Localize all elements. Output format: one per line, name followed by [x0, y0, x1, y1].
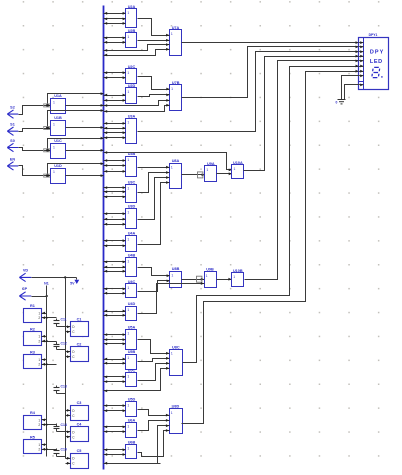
svg-text:CP: CP — [22, 287, 28, 291]
wire: rail to C1 pins — [66, 325, 71, 333]
svg-text:U4B: U4B — [128, 254, 136, 258]
svg-text:U2D: U2D — [128, 84, 136, 88]
svg-text:2: 2 — [38, 339, 40, 343]
AND gate U5A — [126, 326, 137, 350]
inverter U1B — [51, 116, 66, 136]
svg-text:1: 1 — [127, 186, 129, 190]
OR gate U8C — [170, 345, 183, 375]
svg-text:1: 1 — [234, 167, 236, 171]
port S1 (input connector arrow) — [7, 123, 18, 136]
svg-text:1: 1 — [38, 443, 40, 447]
wire: bus taps to U3A inputs — [104, 122, 126, 139]
wire: U10B out to display pin 5 — [245, 60, 359, 280]
svg-text:U3C: U3C — [128, 180, 136, 184]
wire: bus taps to U4C inputs — [104, 288, 126, 295]
svg-text:S2: S2 — [10, 106, 15, 110]
svg-text:U5D: U5D — [128, 397, 136, 401]
wire: U2B out to U7A in2 — [138, 39, 170, 42]
buffer U9B — [205, 268, 217, 288]
svg-text:1: 1 — [127, 35, 129, 39]
wire: U5A out to U8C in1 — [138, 340, 170, 355]
OR gate U8D — [170, 405, 183, 434]
buffer U9A — [205, 162, 217, 182]
svg-text:1: 1 — [127, 424, 129, 428]
wire: U3D out to U8A in3 — [138, 176, 170, 219]
svg-text:C15: C15 — [61, 448, 67, 452]
svg-text:U1C: U1C — [54, 139, 62, 143]
svg-text:1: 1 — [127, 375, 129, 379]
wire: VD to 5V rail — [32, 276, 77, 278]
wire: bus taps to U2A inputs — [104, 12, 126, 25]
inverter U1D — [51, 164, 66, 184]
wire: rail to C2 pins — [66, 350, 71, 358]
svg-text:1: 1 — [127, 260, 129, 264]
svg-text:U1D: U1D — [54, 164, 62, 168]
wire: U4A out to U8A in4 — [138, 181, 170, 244]
wire: inverter U1A output to bus — [66, 104, 104, 107]
svg-text:U4D: U4D — [128, 302, 136, 306]
wire: bus taps to U4B inputs — [104, 261, 126, 273]
svg-text:1: 1 — [127, 356, 129, 360]
port CLK input connector — [19, 287, 31, 300]
svg-text:0: 0 — [336, 101, 338, 105]
wire: U10A out to display pin 4 — [244, 55, 359, 171]
wire: U4C out to U8B in2 — [138, 280, 170, 292]
svg-text:DPY1: DPY1 — [369, 33, 378, 37]
wire: U4B out to U8B in1 — [138, 268, 170, 278]
svg-text:1: 1 — [171, 165, 173, 169]
svg-text:1: 1 — [127, 211, 129, 215]
svg-text:U10A: U10A — [233, 161, 243, 165]
wire: U3B out to U8A in1 — [138, 166, 170, 169]
AND gate U6A — [126, 418, 137, 437]
svg-text:N1: N1 — [44, 281, 49, 285]
wire: U3C out to U8A in2 — [138, 171, 170, 192]
svg-text:U5A: U5A — [128, 326, 136, 330]
wire: bus to U7A in3 — [104, 43, 170, 52]
wire: bus taps to U5A inputs — [104, 333, 126, 345]
svg-text:1: 1 — [53, 100, 55, 104]
svg-text:U9B: U9B — [206, 268, 214, 272]
svg-text:5V: 5V — [70, 282, 75, 286]
wire: bus taps to U5D inputs — [104, 404, 126, 412]
svg-text:R3: R3 — [30, 351, 35, 355]
svg-text:C1: C1 — [77, 318, 82, 322]
wire: R2 pins to rail — [42, 335, 57, 343]
svg-text:C14: C14 — [61, 423, 67, 427]
driver block C3 — [71, 401, 89, 420]
wire: port S1 to inverter U1B input and bus tap — [19, 109, 104, 131]
wire: U9B out to U10B in — [217, 278, 232, 281]
svg-text:DPY: DPY — [370, 50, 384, 56]
svg-text:U8C: U8C — [172, 345, 180, 349]
AND gate U3A — [126, 114, 137, 143]
capacitor C13 — [54, 385, 67, 394]
wire: bus taps to U2B inputs — [104, 37, 126, 44]
capacitor C14 — [54, 423, 67, 432]
svg-text:1: 1 — [206, 274, 208, 278]
AND gate U5C — [126, 369, 137, 387]
wire: bus to U10A in1 — [104, 151, 232, 171]
svg-text:1: 1 — [127, 403, 129, 407]
AND gate U5B — [126, 350, 137, 370]
wire: U7B out to display pin 2 — [182, 46, 359, 98]
port EN (input connector arrow) — [7, 157, 18, 170]
wire: bus taps to U2D inputs — [104, 94, 126, 102]
svg-text:1: 1 — [127, 308, 129, 312]
wire: bus bottom feed to U8D in3 — [104, 424, 170, 464]
svg-text:1: 1 — [127, 71, 129, 75]
wire: U8A out to U9A pad — [182, 172, 205, 178]
wire: U8D out to display pin 7 — [182, 70, 359, 424]
wire: R4 pins to rail — [42, 419, 57, 427]
svg-text:U10B: U10B — [233, 269, 243, 273]
svg-text:1: 1 — [38, 418, 40, 422]
key switch R5 — [24, 436, 42, 454]
AND gate U6B — [126, 441, 137, 459]
svg-text:U2C: U2C — [128, 65, 136, 69]
svg-text:VD: VD — [23, 269, 29, 273]
wire: bus taps to U3B inputs — [104, 159, 126, 173]
driver block C5 — [71, 449, 89, 468]
AND gate U5D — [126, 397, 137, 416]
wire: U2C out to U7B in1 — [138, 77, 170, 91]
svg-text:1: 1 — [127, 90, 129, 94]
key switch R4 — [24, 411, 42, 430]
svg-text:1: 1 — [53, 170, 55, 174]
svg-text:1: 1 — [171, 32, 173, 36]
wire: R1 pins to rail — [42, 312, 57, 320]
svg-text:2: 2 — [38, 423, 40, 427]
driver block C4 — [71, 423, 89, 442]
key switch R2 — [24, 327, 42, 345]
key switch R3 — [24, 351, 42, 369]
port VD (power input connector) — [19, 269, 31, 282]
power symbol 5V — [70, 278, 79, 286]
svg-text:C3: C3 — [77, 401, 82, 405]
wire: U4D out to U9B in2 — [138, 282, 205, 313]
svg-text:U4C: U4C — [128, 280, 136, 284]
svg-text:1: 1 — [127, 120, 129, 124]
svg-text:U1A: U1A — [54, 94, 62, 98]
seven-segment display DPY1 (DPY LED) — [359, 33, 389, 89]
svg-text:1: 1 — [127, 238, 129, 242]
svg-text:U3D: U3D — [128, 205, 136, 209]
wire: left vertical rail — [44, 281, 49, 456]
svg-text:U1B: U1B — [54, 116, 62, 120]
svg-text:R1: R1 — [30, 304, 35, 308]
wire: U8B out to U9B pad — [182, 276, 205, 282]
svg-text:1: 1 — [38, 311, 40, 315]
svg-text:1: 1 — [171, 87, 173, 91]
svg-text:1: 1 — [206, 168, 208, 172]
AND gate U10B — [232, 269, 244, 287]
wire: U5D out to U8D in1 — [138, 410, 170, 417]
AND gate U4C — [126, 280, 137, 298]
wire: rail to C5 pins — [66, 457, 71, 465]
port S2 (input connector arrow) — [7, 106, 18, 119]
svg-text:U2A: U2A — [128, 5, 136, 9]
OR gate U7B — [170, 81, 182, 111]
svg-text:S0: S0 — [10, 139, 15, 143]
svg-text:1: 1 — [38, 358, 40, 362]
wire: U8C out to display pin 6 — [183, 65, 359, 363]
wire: bus to U7B in3 — [104, 99, 170, 107]
wire: right vertical rail — [65, 278, 67, 459]
wire: inverter U1D output to bus — [66, 174, 104, 177]
AND gate U3B — [126, 152, 137, 176]
svg-text:1: 1 — [127, 158, 129, 162]
capacitor C11 — [54, 318, 67, 327]
wire: U7A out to display pin 1 — [182, 41, 359, 44]
wire: port S2 to inverter U1A input and bus tap — [19, 92, 104, 114]
wire: port S0 to inverter U1C input and bus tap — [19, 137, 104, 152]
svg-text:R5: R5 — [30, 436, 35, 440]
wire: inverter U1C output to bus — [66, 149, 104, 152]
svg-text:1: 1 — [233, 275, 235, 279]
capacitor C12 — [54, 341, 67, 349]
key switch R1 — [24, 304, 42, 322]
wire: port EN to inverter U1D input and bus tap — [19, 162, 104, 177]
driver block C2 — [71, 343, 89, 362]
svg-text:1: 1 — [53, 122, 55, 126]
wire: bus taps to U3C inputs — [104, 186, 126, 198]
wire: vertical signal bus — [103, 6, 105, 470]
svg-text:2: 2 — [38, 316, 40, 320]
wire: R5 pins to rail — [42, 443, 57, 450]
wire: rail to C4 pins — [66, 431, 71, 439]
wire: R3 pins to rail — [42, 358, 57, 365]
svg-text:C2: C2 — [77, 343, 82, 347]
svg-text:U9A: U9A — [207, 162, 215, 166]
wire: U6B out to U8D in4 — [138, 429, 170, 456]
wire: bus taps to U5B inputs — [104, 358, 126, 365]
svg-text:S1: S1 — [10, 123, 15, 127]
wire: U2A out to U7A in1 — [138, 19, 170, 37]
wire: bus taps to U6B inputs — [104, 448, 126, 456]
wire: bus taps to U6A inputs — [104, 426, 126, 434]
display DPY1 pin stubs — [359, 41, 364, 86]
svg-text:U8B: U8B — [172, 267, 180, 271]
wire: bus taps to U3D inputs — [104, 212, 126, 225]
wire: U5C out to U8C in3 — [138, 362, 170, 381]
wire: U2D out to U7B in2 — [138, 94, 170, 97]
wire: bus taps to U4D inputs — [104, 310, 126, 317]
AND gate U3D — [126, 205, 137, 229]
svg-text:U5C: U5C — [128, 369, 136, 373]
svg-text:1: 1 — [53, 146, 55, 150]
AND gate U2A — [126, 5, 137, 28]
AND gate U4D — [126, 302, 137, 321]
svg-text:C12: C12 — [61, 341, 67, 345]
OR gate U8A — [170, 159, 182, 188]
AND gate U2D — [126, 84, 137, 104]
svg-text:U6A: U6A — [128, 418, 136, 422]
svg-text:U3A: U3A — [128, 114, 136, 118]
wire: CLK port to left rail — [32, 295, 48, 297]
svg-text:U7B: U7B — [172, 81, 180, 85]
wire: U9A out to U10A in2 — [217, 172, 232, 175]
wire: bus to U7A in4 — [104, 48, 170, 57]
wire: bus taps to U4A inputs — [104, 239, 126, 247]
svg-text:C11: C11 — [61, 318, 67, 322]
port S0 (input connector arrow) — [7, 139, 18, 152]
svg-text:C5: C5 — [77, 449, 82, 453]
svg-text:U7A: U7A — [172, 26, 180, 30]
svg-text:2: 2 — [38, 448, 40, 452]
AND gate U10A — [232, 161, 244, 179]
svg-text:1: 1 — [127, 286, 129, 290]
OR gate U7A — [170, 26, 182, 56]
inverter U1A — [51, 94, 66, 114]
svg-text:1: 1 — [127, 447, 129, 451]
AND gate U4A — [126, 232, 137, 252]
wire: U5B out to U8C in2 — [138, 357, 170, 362]
driver block C1 — [71, 318, 89, 337]
svg-text:1: 1 — [171, 273, 173, 277]
svg-text:LED: LED — [370, 59, 382, 65]
svg-text:EN: EN — [10, 157, 16, 161]
svg-text:1: 1 — [127, 332, 129, 336]
wire: U3A out to display pin 3 — [138, 50, 359, 131]
wire: U6A out to U8D in2 — [138, 419, 170, 431]
svg-text:2: 2 — [38, 363, 40, 367]
svg-text:1: 1 — [127, 11, 129, 15]
wire: display common pins to ground — [342, 76, 359, 100]
svg-text:U8D: U8D — [172, 405, 180, 409]
svg-text:U4A: U4A — [128, 232, 136, 236]
svg-text:C13: C13 — [61, 385, 67, 389]
wire: inverter U1B output to bus — [66, 126, 104, 129]
capacitor C15 — [54, 448, 67, 457]
AND gate U4B — [126, 254, 137, 277]
wire: rail to C3 pins — [66, 409, 71, 417]
AND gate U2B — [126, 29, 137, 48]
wire: bus to U7B in4 — [104, 104, 170, 113]
svg-text:1: 1 — [171, 352, 173, 356]
svg-text:1: 1 — [171, 411, 173, 415]
OR gate U8B — [170, 267, 182, 287]
svg-text:1: 1 — [38, 335, 40, 339]
inverter U1C — [51, 139, 66, 158]
svg-text:U8A: U8A — [172, 159, 180, 163]
AND gate U3C — [126, 180, 137, 202]
ground symbol — [338, 100, 346, 104]
svg-text:U6B: U6B — [128, 441, 136, 445]
svg-text:R2: R2 — [30, 327, 35, 331]
wire: bus taps to U5C inputs — [104, 376, 126, 384]
svg-text:U2B: U2B — [128, 29, 136, 33]
svg-text:U5B: U5B — [128, 350, 136, 354]
AND gate U2C — [126, 65, 137, 84]
wire: bus to U8C in4 — [104, 367, 170, 392]
wire: bus taps to U2C inputs — [104, 71, 126, 79]
